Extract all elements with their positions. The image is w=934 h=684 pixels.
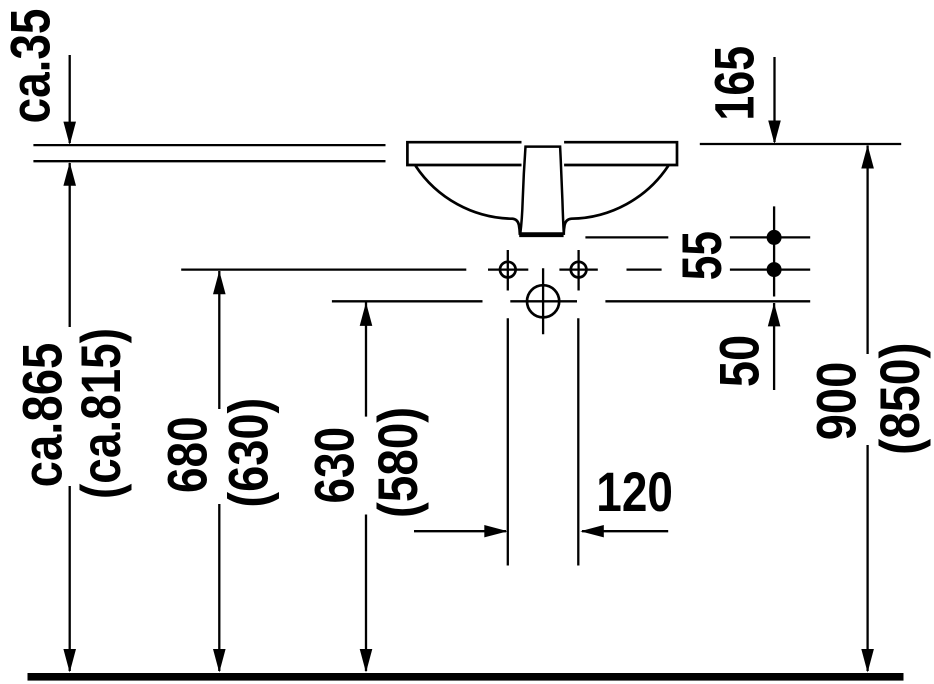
svg-text:(630): (630): [217, 398, 280, 508]
svg-text:630: 630: [303, 427, 365, 504]
svg-text:ca.35: ca.35: [0, 9, 62, 124]
svg-text:(580): (580): [368, 407, 430, 518]
svg-text:120: 120: [596, 461, 673, 523]
svg-text:900: 900: [804, 362, 867, 440]
svg-text:680: 680: [156, 416, 218, 493]
svg-text:(850): (850): [870, 342, 932, 454]
svg-text:(ca.815): (ca.815): [70, 328, 132, 499]
svg-text:ca.865: ca.865: [11, 343, 74, 488]
svg-text:50: 50: [708, 335, 771, 387]
svg-text:55: 55: [670, 231, 733, 280]
svg-text:165: 165: [703, 46, 766, 121]
